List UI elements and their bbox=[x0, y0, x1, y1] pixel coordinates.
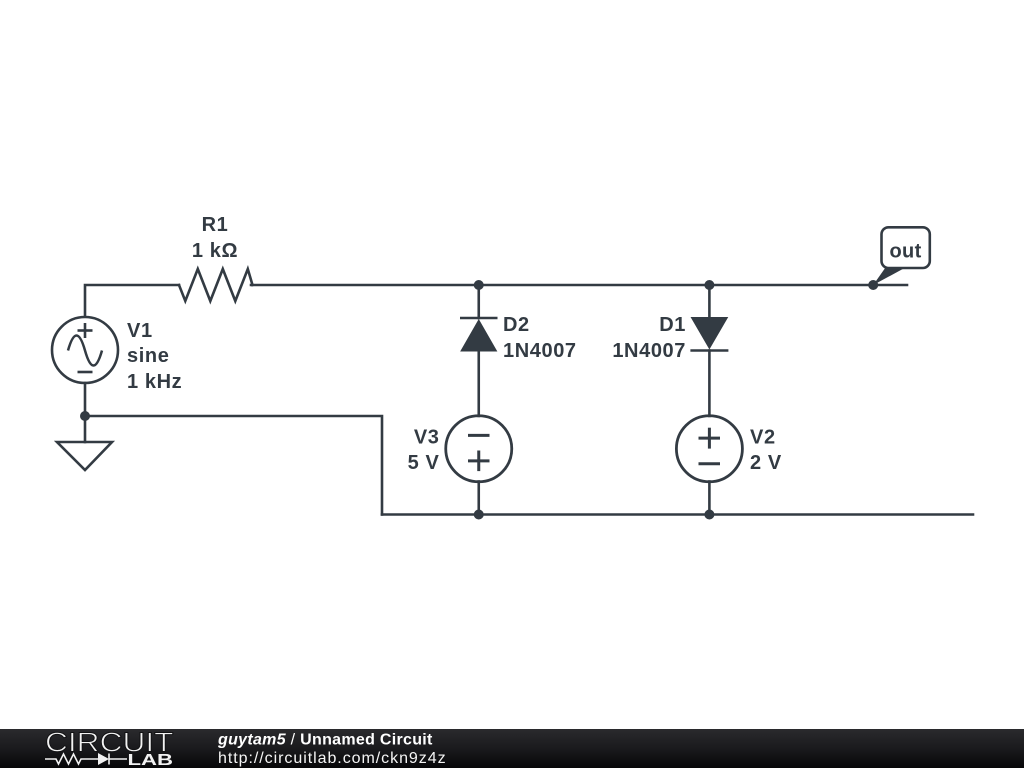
wire lower-left horizontal bbox=[85, 416, 382, 515]
svg-text:1N4007: 1N4007 bbox=[503, 340, 577, 362]
svg-text:D2: D2 bbox=[503, 314, 530, 336]
svg-text:V3: V3 bbox=[414, 427, 440, 449]
ground bbox=[57, 442, 112, 470]
node at V1 ground junction bbox=[80, 411, 90, 421]
wire D1 top bbox=[708, 285, 711, 318]
wire V3 to rail bbox=[477, 482, 480, 515]
svg-text:http://circuitlab.com/ckn9z4z: http://circuitlab.com/ckn9z4z bbox=[218, 750, 447, 767]
diode D1 bbox=[690, 318, 728, 351]
svg-text:R1: R1 bbox=[202, 214, 229, 236]
svg-text:V2: V2 bbox=[750, 427, 776, 449]
bottom bar bbox=[0, 729, 1024, 768]
svg-text:LAB: LAB bbox=[128, 752, 174, 768]
svg-text:1 kHz: 1 kHz bbox=[127, 371, 182, 393]
wire V2 to rail bbox=[708, 482, 711, 515]
svg-text:5 V: 5 V bbox=[408, 452, 440, 474]
wire D2 top bbox=[477, 285, 480, 318]
voltage source V2 bbox=[676, 416, 742, 482]
svg-text:V1: V1 bbox=[127, 320, 153, 342]
node out bbox=[868, 280, 878, 290]
logo symbol row: resistor + diode bbox=[45, 754, 127, 765]
wire bottom rail bbox=[382, 513, 973, 516]
out flag bbox=[873, 227, 930, 285]
svg-text:D1: D1 bbox=[659, 314, 686, 336]
diode D2 bbox=[460, 318, 498, 351]
wire V1 bottom to ground node bbox=[84, 383, 87, 442]
wire D1 to V2 bbox=[708, 351, 711, 417]
voltage source V1 bbox=[52, 317, 118, 383]
svg-text:1N4007: 1N4007 bbox=[612, 340, 686, 362]
wire top rail from R1 to out stub bbox=[251, 284, 907, 287]
labels bbox=[127, 214, 782, 474]
svg-text:1 kΩ: 1 kΩ bbox=[192, 240, 238, 262]
node top D2 bbox=[474, 280, 484, 290]
wire D2 to V3 bbox=[477, 351, 480, 416]
svg-text:out: out bbox=[889, 241, 921, 263]
wire top-left from V1 to R1 bbox=[85, 285, 179, 317]
svg-text:guytam5 / Unnamed Circuit: guytam5 / Unnamed Circuit bbox=[217, 732, 433, 749]
node rail V2 bbox=[704, 510, 714, 520]
svg-text:2 V: 2 V bbox=[750, 452, 782, 474]
node rail V3 bbox=[474, 510, 484, 520]
resistor R1 bbox=[179, 269, 253, 301]
svg-text:sine: sine bbox=[127, 345, 169, 367]
voltage source V3 bbox=[446, 416, 512, 482]
node top D1 bbox=[704, 280, 714, 290]
